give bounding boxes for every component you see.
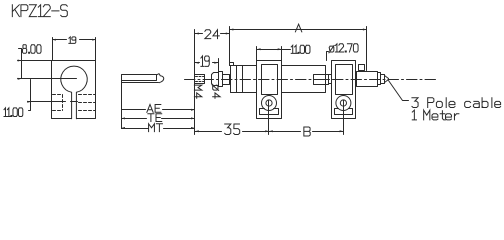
connector box middle line	[314, 79, 329, 81]
clamp 1 screw inner circle	[266, 100, 272, 106]
dimension A lines	[230, 27, 367, 71]
main body cylinder	[231, 66, 326, 93]
dimension B text	[304, 127, 310, 136]
wire TE label	[148, 114, 162, 122]
note 1 Meter	[412, 110, 459, 120]
extension line at probe left end	[194, 30, 196, 135]
set screw box on shaft top	[359, 65, 365, 71]
flange ring	[219, 72, 223, 87]
dimension dia 12.70 text	[329, 44, 358, 53]
clamp 2 window	[336, 65, 353, 95]
cable lug body	[122, 75, 159, 83]
dimension 8.00 lines	[18, 49, 52, 79]
clamp 2 base	[335, 109, 353, 115]
cylinder dia 4	[212, 73, 219, 86]
body right edge through connector box	[325, 75, 327, 85]
dimension 11.00 left text	[4, 108, 23, 117]
note 3 Pole cable	[412, 98, 501, 108]
neck to body	[223, 75, 230, 85]
extension line from clamp 2 screw center	[343, 101, 345, 135]
dimension 8.00 text	[23, 45, 42, 54]
dimension 19 left view	[53, 38, 96, 61]
clamp bracket 1	[257, 61, 282, 119]
wire MT line	[122, 128, 195, 130]
dimension 19 probe text	[201, 56, 209, 66]
dimension 11.00 left lines	[29, 80, 31, 111]
body grooves	[237, 66, 243, 93]
left view screw axis line	[28, 101, 78, 103]
left view hidden thread dashed	[79, 95, 96, 111]
probe cone tip	[385, 76, 389, 83]
clamp 2 screw inner circle	[340, 100, 346, 106]
left view hidden counterbore dashed	[53, 95, 63, 111]
dimension 24 text	[205, 30, 219, 39]
clamp bracket 2	[332, 61, 356, 119]
dimension 24 lines	[195, 27, 230, 66]
main center line	[185, 79, 438, 81]
cable lug tip	[157, 74, 164, 83]
dimension dia 12.70 leader	[327, 52, 329, 61]
clamp 1 screw outer circle	[262, 96, 277, 111]
wire AE line	[122, 109, 195, 111]
clamp 1 base	[260, 109, 279, 115]
connector box on center line	[314, 75, 329, 85]
dimension B lines	[269, 131, 344, 133]
probe step ring	[378, 73, 381, 85]
clamp 1 window	[262, 65, 278, 95]
probe step 2	[381, 75, 385, 84]
left view keyhole circle and slot	[61, 66, 87, 119]
leader to cable note	[389, 81, 409, 101]
dimension 35 lines	[195, 131, 269, 133]
extension line from clamp 1 screw center	[268, 101, 270, 135]
cable line down from lug	[121, 83, 123, 129]
dimension 19 probe lines	[195, 59, 219, 72]
left view center line through circle	[18, 78, 77, 80]
dimension A text	[295, 24, 301, 32]
label dia4 rotated	[212, 85, 220, 99]
clamp 2 screw outer circle	[336, 96, 351, 111]
neck between body and clamp 2	[326, 75, 332, 84]
label M4 rotated	[194, 85, 201, 98]
dimension 11.00 clamp text	[291, 45, 310, 53]
small box on body top left	[230, 63, 234, 66]
M4 threaded stud	[195, 75, 205, 84]
dimension 35 text	[225, 124, 240, 135]
wire AE label	[147, 105, 161, 113]
title KPZ12-S	[12, 5, 67, 17]
wire TE line	[122, 118, 195, 120]
probe shaft	[357, 72, 378, 87]
dimension 11.00 clamp lines	[257, 47, 291, 62]
left view clamp block outline	[52, 61, 96, 119]
dimension 19 left view text	[69, 37, 76, 44]
wire MT label	[149, 124, 163, 132]
